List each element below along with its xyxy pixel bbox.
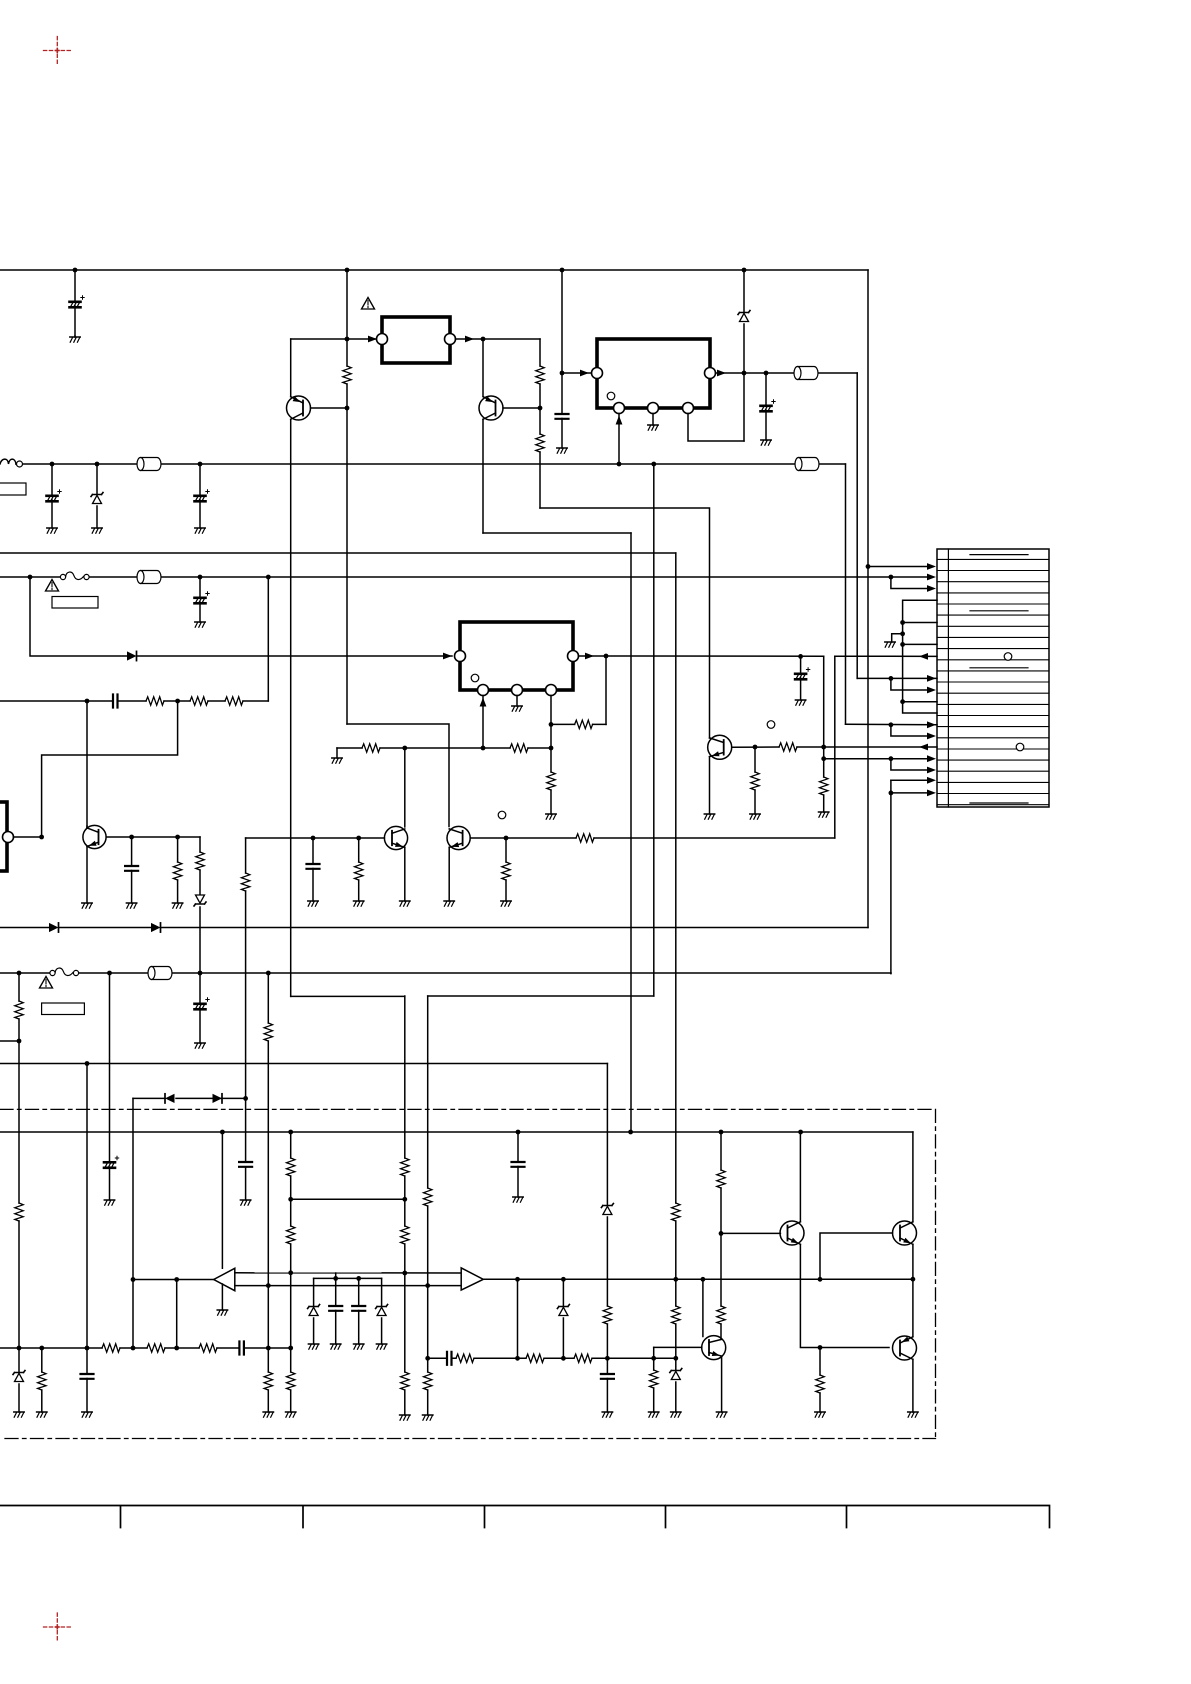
wire: y=1063.5 from x=0 to corner x=607.4 bbox=[0, 1063, 607, 1065]
ground bbox=[423, 1415, 433, 1420]
electrolytic cap at (52,496) bbox=[51, 464, 53, 528]
wire: rail corner down x=912.9 to Q9 collector bbox=[912, 1132, 914, 1222]
wire: y=996 left segment (290.7 corner to 404.8) bbox=[291, 995, 405, 997]
node: junction (630.6,1132) bbox=[628, 1130, 633, 1135]
op-amp B (pointing right) bbox=[461, 1268, 483, 1290]
pin: U-B bottom 1 bbox=[614, 403, 625, 414]
pin: U-C right bbox=[568, 651, 579, 662]
node: junction (890.9,792.9) bbox=[889, 791, 894, 796]
node: junction (133,1279.5) bbox=[131, 1277, 136, 1282]
wire: x=755 down resistor to ground bbox=[754, 747, 756, 814]
resistor R on x=347 bbox=[343, 366, 351, 384]
zener diode at (97,496) bbox=[96, 464, 98, 528]
wire: U-C pin 483 down to junction 748 with up arrow bbox=[482, 696, 484, 749]
node: junction (313,838) bbox=[311, 836, 316, 841]
wire: x=87 collector up from QA to y=701 bbox=[86, 701, 88, 828]
ferrite bead on y=577 bbox=[137, 571, 161, 584]
wire: U-B pin 653 to ground bbox=[652, 414, 654, 426]
pin: U-B bottom 3 bbox=[683, 403, 694, 414]
ground bbox=[602, 1412, 612, 1417]
wire: vertical x=269 from 577 down to y=701 corner bbox=[267, 577, 269, 701]
connector divider bbox=[947, 549, 949, 807]
wire: op-amp A ground stem bbox=[221, 1284, 223, 1310]
node: junction (87,1063.5) bbox=[85, 1061, 90, 1066]
transistor Q10 (NPN) at (904.5,1348) chord right x=912.9 base left bbox=[893, 1336, 917, 1360]
connector row lines bbox=[937, 559, 1049, 804]
crop mark bottom-left bbox=[44, 1613, 73, 1641]
resistor series on y=1348 b bbox=[147, 1344, 165, 1352]
resistor on x=245.6 bbox=[241, 873, 249, 891]
series resistor 2 on y=701 bbox=[190, 697, 208, 705]
ground bbox=[750, 814, 760, 819]
node: junction (427.7,1358.3) bbox=[425, 1356, 430, 1361]
wire: Q7 emitter to ground bbox=[721, 1356, 723, 1412]
wire: x=222 chain: zener + resistor down to 1348 bbox=[221, 1132, 223, 1268]
fuse on y=577 bbox=[60, 572, 89, 580]
node: junction (200,577) bbox=[198, 575, 203, 580]
wire: vertical x=653.8 from 464 down to 996 bbox=[653, 464, 655, 996]
connector keying circle 2 bbox=[1016, 743, 1024, 751]
ground under C75 bbox=[74, 336, 76, 337]
ground bbox=[92, 528, 102, 533]
wire: y=725 from x=606 junction area to connector bbox=[846, 723, 938, 726]
wire: vertical x=562 from 270 to 373 bbox=[561, 270, 563, 373]
ferrite bead on y=373 bbox=[794, 367, 818, 380]
resistor at (506,862) bbox=[505, 838, 507, 901]
resistor below line at x=41.8 bbox=[41, 1348, 43, 1412]
ground under cap 562 bbox=[557, 448, 567, 453]
ground bbox=[648, 425, 658, 430]
wire: y=996 right segment (427.7 to 653.8) bbox=[428, 995, 654, 997]
zener at (381.6,1306) bbox=[381, 1278, 383, 1344]
wire: Q8 emitter down to corner y=1347.5 then Q10 base bbox=[800, 1244, 889, 1347]
transistor Q9 (NPN) at (904.5,1233) chord right x=912.9 base left bbox=[893, 1221, 917, 1245]
node: junction +B x=562 bbox=[560, 268, 565, 273]
node: junction (177.6,837) bbox=[175, 835, 180, 840]
ground bbox=[795, 700, 805, 705]
ferrite bead on y=973 bbox=[148, 967, 172, 980]
node: junction (868,566.5) bbox=[866, 564, 871, 569]
wire: stub 792.9 bbox=[891, 792, 932, 794]
series resistor 1 on y=701 bbox=[146, 697, 164, 705]
node: junction (823.9,747) bbox=[821, 745, 826, 750]
ground bbox=[376, 1344, 386, 1349]
ground bbox=[37, 1412, 47, 1417]
diode pair line y=1098.4 bbox=[133, 1097, 246, 1099]
IC U-C box (460,622)-(573,690) bbox=[460, 622, 573, 690]
capacitor at (313,864) bbox=[312, 838, 314, 901]
wire: y=533 from 483 to 631 bbox=[483, 532, 631, 534]
node: junction (820,1347.5) bbox=[818, 1345, 823, 1350]
node: junction (19,973) bbox=[17, 971, 22, 976]
node: junction (744,373) bbox=[742, 371, 747, 376]
node: junction (176.7,1348) bbox=[174, 1346, 179, 1351]
node: junction (245.6,1098.4) bbox=[243, 1096, 248, 1101]
wire: Q9 base from x=820 bracket bbox=[820, 1233, 893, 1279]
node: junction (268.8,577) bbox=[266, 575, 271, 580]
pin: U-B bottom 2 bbox=[648, 403, 659, 414]
node: junction (606,656) bbox=[604, 654, 609, 659]
zener at (313.6,1306) bbox=[313, 1278, 315, 1344]
wire: fused line y=577 full width to connector bbox=[0, 576, 932, 578]
wire: staircase 577 to 588.5 stub bbox=[891, 577, 932, 589]
node: junction (52,464) bbox=[50, 462, 55, 467]
series resistor on y=1358.3 a bbox=[456, 1354, 474, 1362]
wire: U-B pin 688 down to y=441 left to x=744 bbox=[688, 414, 744, 442]
scale bar at bottom bbox=[0, 1506, 1050, 1528]
ground bbox=[14, 1412, 24, 1417]
ground bbox=[444, 901, 454, 906]
node: junction (755,747) bbox=[753, 745, 758, 750]
node: junction +B x=347 bbox=[345, 268, 350, 273]
capacitor below line at x=87 bbox=[86, 1348, 88, 1412]
node: junction (87,1348) bbox=[85, 1346, 90, 1351]
node: junction (200,464) bbox=[198, 462, 203, 467]
wire: y=508 from 540 to 709.5 then down bbox=[540, 508, 710, 738]
transistor Q8 (NPN) at (792,1233) chord right x=800.4 base left bbox=[780, 1221, 804, 1245]
diode pointing left on y=1098.4 bbox=[165, 1094, 175, 1103]
node: junction (506,838) bbox=[504, 836, 509, 841]
line y=1358.3 right segment: 427.7 to 675.8 bbox=[428, 1357, 676, 1359]
wire: op-amp inputs row y=1272.8 bbox=[235, 1272, 461, 1274]
wire: vertical x=845.4 from 464 to 656 bbox=[845, 464, 847, 724]
electrolytic cap at (200,600) bbox=[199, 577, 201, 622]
wire: vertical x=891.7 from corner 780.3 down to 973.5 bbox=[890, 780, 892, 973]
capacitor at (358.7,1306) bbox=[358, 1278, 360, 1344]
node: junction x=483 y=339 bbox=[481, 337, 486, 342]
ground bbox=[104, 1200, 114, 1205]
ground bbox=[400, 901, 410, 906]
wire: diode line y=927.5 from x=0 to corner x=868 bbox=[0, 927, 868, 929]
ground bbox=[331, 1344, 341, 1349]
ground bbox=[354, 901, 364, 906]
node: junction (721,1132) bbox=[719, 1130, 724, 1135]
pin: U-D right pin bbox=[3, 832, 14, 843]
wire: x=427.7 from 996 down to ground bbox=[427, 996, 429, 1415]
diode on y=656 bbox=[127, 651, 137, 660]
transistor Q1 (PNP) at (298.5,408) chord x=290.3 base right bbox=[290, 339, 292, 397]
wire: staircase 758.7 to 770 bbox=[891, 759, 932, 770]
wire: x=200 down from 837: resistor + zener to junction 973 bbox=[199, 837, 201, 973]
op-amp A (pointing left) bbox=[214, 1268, 235, 1290]
resistor at (358.7,862) bbox=[358, 838, 360, 901]
connector keying circle 1 bbox=[1004, 653, 1012, 661]
series resistor on y=1358.3 b bbox=[526, 1354, 544, 1362]
wire: Q8 collector up to rail bbox=[799, 1132, 801, 1222]
crop mark top-left bbox=[44, 37, 73, 65]
wire: power rail y=1132 inside box bbox=[0, 1131, 913, 1133]
node: junction (87,701) bbox=[85, 699, 90, 704]
wire: vertical x=404.8 from 748 to Q3 top bbox=[404, 748, 406, 827]
node: junction (41.6,837) bbox=[39, 835, 44, 840]
wire: y=1199.3 from 290.8 to 404.8 bbox=[291, 1198, 405, 1200]
wire: x=653.7 from base row 1347.4 down through 1358.3, resistor, ground bbox=[653, 1347, 655, 1412]
pin: U-C bottom 2 bbox=[512, 685, 523, 696]
IC U-D at left page edge (cut) bbox=[0, 802, 7, 871]
node: junction (551,724.4) bbox=[549, 722, 554, 727]
wire: x=290.8 chain down to ground below 1348 bbox=[290, 1132, 292, 1412]
node+wire: stub 701.7 bbox=[900, 699, 905, 704]
wire: staircase 724.8 to 736 bbox=[891, 725, 932, 736]
pin: U-B right bbox=[705, 368, 716, 379]
node: junction (41.8,1348) bbox=[39, 1346, 44, 1351]
test point circle at (502,815) bbox=[498, 811, 506, 819]
wire: Q2 emitter down x=483 to y=533 bbox=[482, 419, 484, 533]
wire: vertical x=857.2 corner to stub 679 bbox=[857, 677, 937, 679]
node: junction (268.8,1285.6) bbox=[266, 1283, 271, 1288]
wire: x=133 from 1098.4 down to 1348 bbox=[132, 1098, 134, 1348]
wire: staircase 679 to 690 bbox=[891, 678, 932, 690]
electrolytic cap at x=766 bbox=[765, 373, 767, 440]
wire: stub 780.3 bbox=[891, 779, 932, 781]
node: junction (551,748) bbox=[549, 746, 554, 751]
wire: x=820 resistor to ground bbox=[819, 1348, 821, 1413]
ground bbox=[195, 622, 205, 627]
node: junction (800.6,656) bbox=[798, 654, 803, 659]
node: junction (404.8,1199.3) bbox=[402, 1197, 407, 1202]
node: junction x=347 y=408 (base Q1) bbox=[345, 406, 350, 411]
node: junction (563.4,1358.3) bbox=[561, 1356, 566, 1361]
zener diode at x=744 bbox=[738, 311, 750, 322]
wire: x=834.2 from 656 down to 838 bbox=[834, 656, 836, 838]
dash-dot box bottom border y=1438.5 bbox=[5, 1438, 936, 1440]
ground bbox=[819, 812, 829, 817]
wire: Q4 base y=747 to connector bbox=[732, 746, 937, 748]
zener below at x=675.8 bbox=[675, 1358, 677, 1412]
node: junction (335.7,1278.4) bbox=[333, 1276, 338, 1281]
capacitor at x=562 below bbox=[561, 373, 563, 448]
wire: x=702.9 down to Q7 circle top bbox=[702, 1279, 704, 1336]
node: junction (268.8,1348) bbox=[266, 1346, 271, 1351]
wire: x=176.7 link down to 1348 bbox=[176, 1280, 178, 1349]
pin1 indicator circle inside U-B bbox=[607, 392, 615, 400]
node: junction (653.7,1358.3) bbox=[651, 1356, 656, 1361]
wire: x=268.8 below 1348: resistor + ground bbox=[267, 1348, 269, 1412]
ground under cap 766 bbox=[761, 440, 771, 445]
connector detail lines bbox=[970, 555, 1028, 803]
node: junction (890.9,758.7) bbox=[889, 756, 894, 761]
node: junction (290.8,1199.3) bbox=[288, 1197, 293, 1202]
capacitor C (electrolytic) at x=75 bbox=[74, 270, 76, 336]
diode pointing right on y=1098.4 bbox=[213, 1094, 223, 1103]
wire: vertical x=245.6 from 838 down to cap at 1158 bbox=[245, 838, 247, 1200]
ground bbox=[716, 1412, 726, 1417]
node: junction (890.9,577) stub bbox=[889, 575, 894, 580]
transistor Q2 (PNP) at (491,408) chord x=483 base right bbox=[479, 396, 503, 420]
wire: vertical x=675.8 from 553 down to 1358.3 bbox=[675, 553, 677, 1358]
ground bbox=[815, 1412, 825, 1417]
wire: bracket (177.6,701)-(177.6,755)-(41.6,755)-(41.6,837) bbox=[42, 701, 178, 837]
wire: Q1 emitter down x=290.7 all the way to rail y=1132 bbox=[290, 419, 292, 996]
node: junction (563.4,1279.3) bbox=[561, 1277, 566, 1282]
resistor series on y=1348 c bbox=[199, 1344, 217, 1352]
label box (41.6,1003)-(84.4,1014.5) bbox=[42, 1003, 85, 1015]
node: junction on +B at x=75 bbox=[73, 268, 78, 273]
wire: Q9 emitter down to Q10 collector bbox=[912, 1244, 914, 1336]
wire: op-amp A output y=1279.5 to x=133 bbox=[133, 1279, 214, 1281]
capacitor at (245.6,1158) bbox=[239, 1162, 252, 1167]
IC U-B box (597,339)-(710,408) bbox=[597, 339, 710, 408]
pin: U-C left bbox=[455, 651, 466, 662]
wire: IC U-A output to x=540 with arrow bbox=[456, 338, 541, 340]
wire: QA base to corner x=200 bbox=[107, 836, 200, 838]
pin1 indicator circle inside U-C bbox=[471, 674, 479, 682]
diode 1 on y=927.5 bbox=[49, 923, 59, 932]
series resistor on y=1358.3 c bbox=[574, 1354, 592, 1362]
ground bbox=[704, 814, 714, 819]
ground bbox=[908, 1412, 918, 1417]
wire: vertical x=540 from 339 to 508 with two resistors bbox=[539, 339, 541, 508]
ground bbox=[512, 706, 522, 711]
node: junction (607.4,1358.3) bbox=[605, 1356, 610, 1361]
pin: IC U-A left pin bbox=[377, 334, 388, 345]
electrolytic cap at x=800.6 under y=656 bbox=[800, 656, 802, 700]
node: junction stub (890.9,724.8) bbox=[889, 722, 894, 727]
node: junction (19,1348) bbox=[17, 1346, 22, 1351]
pin: IC U-A right pin bbox=[445, 334, 456, 345]
wire: +B rail y=270 bbox=[0, 269, 868, 271]
wire: vertical x=347 from +B down to y=724 with resistor bbox=[346, 270, 348, 724]
wire: connector stub chain x=902.6 from 600.3 to 713 bbox=[903, 600, 937, 713]
wire: U-C output y=656 to connector with junctions bbox=[579, 655, 938, 657]
ground bbox=[649, 1412, 659, 1417]
series capacitor on y=701 bbox=[113, 695, 118, 708]
node: junction (653.8,464) bbox=[651, 462, 656, 467]
wire: vertical x=631 from 533 to rail 1132 bbox=[630, 533, 632, 1132]
wire: x=563.4 zener down to 1358.3 bbox=[562, 1279, 564, 1358]
wire: Q10 emitter to ground bbox=[912, 1359, 914, 1412]
node: junction +B x=744 bbox=[742, 268, 747, 273]
ferrite bead on y=464 bbox=[137, 458, 161, 471]
connector CN outer box bbox=[937, 549, 1049, 807]
wire: corner (347,724) to (449,724) then down to Q base chord bbox=[347, 724, 449, 827]
electrolytic cap at (109.5,1158) bbox=[104, 1156, 119, 1168]
node: junction (290.8,1132) bbox=[288, 1130, 293, 1135]
wire: U-C pin 517 to ground bbox=[516, 696, 518, 707]
node: junction (518,1132) bbox=[516, 1130, 521, 1135]
transistor Q4 (NPN) at (719.7,747.3) chord x=709.5 base right bbox=[708, 735, 732, 759]
capacitor below at x=607.4 bbox=[606, 1358, 608, 1412]
ground bbox=[263, 1412, 273, 1417]
transistor QA (NPN) at (94.5,837) chord x=87 base right-left pass bbox=[83, 825, 106, 848]
node: junction (540,408) bbox=[538, 406, 543, 411]
node: junction (890.9,678.4) bbox=[889, 676, 894, 681]
node: junction (800.6,1132) bbox=[798, 1130, 803, 1135]
warning triangle below fuse y=577 bbox=[46, 580, 59, 592]
node+wire: ground bracket at 633.8 bbox=[900, 631, 905, 636]
wire: y=748 from ground stub x=337 to 551 bbox=[337, 747, 551, 749]
wire: x=721 chain down to Q7 collector bbox=[720, 1132, 722, 1339]
IC U-A box (382,317)-(450,363) bbox=[382, 317, 450, 363]
resistor at (177.6,862) bbox=[177, 837, 179, 903]
series resistor 3 on y=701 bbox=[225, 697, 243, 705]
node: junction (131.6,837) bbox=[129, 835, 134, 840]
pin: U-B left bbox=[592, 368, 603, 379]
ground bbox=[671, 1412, 681, 1417]
node: junction (517.5,1279.3) bbox=[515, 1277, 520, 1282]
ground bbox=[885, 642, 895, 647]
coil at left end of y=464 bbox=[0, 459, 16, 464]
wire: x=404.8 from 996 down to ground 1418 bbox=[404, 996, 406, 1415]
ground bbox=[195, 1043, 205, 1048]
wire: x=517.5 link down to 1358.3 bbox=[517, 1279, 519, 1358]
ground bbox=[354, 1344, 364, 1349]
node: junction (702.9,1279.3) bbox=[701, 1277, 706, 1282]
ground bbox=[172, 903, 182, 908]
node: junction (19,1041) + stub to page edge bbox=[17, 1039, 22, 1044]
wire: Q7 base from x=653.7 bbox=[654, 1346, 702, 1348]
node: junction (176.7,1279.5) bbox=[174, 1277, 179, 1282]
ground bbox=[332, 758, 342, 763]
node: junction (427.7,1285.6) bbox=[425, 1283, 430, 1288]
resistor on y=748 left bbox=[362, 744, 380, 752]
wire: x=109.5 from 973 down to cap bbox=[109, 973, 111, 1200]
wire: vertical x=269.5 from 973 down to 1348 with resistor bbox=[267, 973, 269, 1348]
node: junction (562,373) bbox=[560, 371, 565, 376]
ground bbox=[82, 1412, 92, 1417]
node: junction (358.7,838) bbox=[356, 836, 361, 841]
wire: input to IC0 from x=290 at y=339 bbox=[291, 338, 377, 340]
wire: U-B pin 619 from junction (619,464) with up arrow bbox=[618, 414, 620, 465]
ground bbox=[240, 1200, 250, 1205]
ground bbox=[400, 1415, 410, 1420]
wire: y=724.4 from 551 to 606 with resistor bbox=[551, 723, 606, 725]
wire: base row y=838 right segment from Q6 to corner x=834.2 bbox=[470, 837, 835, 839]
capacitor at (131.6,866) bbox=[131, 837, 133, 903]
node: junction (222,1132) bbox=[220, 1130, 225, 1135]
wire: vertical x=868 from +B rail down to y=927 bbox=[867, 270, 869, 928]
node: junction (766,373) bbox=[764, 371, 769, 376]
node: junction (133,1348) bbox=[131, 1346, 136, 1351]
resistor on x=540 lower bbox=[536, 434, 544, 452]
node: junction (721,1233.4) bbox=[719, 1231, 724, 1236]
wire: line y=553 from x=0 to corner x=675.8 bbox=[0, 552, 676, 554]
capacitor at (335.7,1306) bbox=[335, 1278, 337, 1344]
node: junction (823.9,758.7) bbox=[821, 756, 826, 761]
ground bbox=[126, 903, 136, 908]
wire: x=30 down from 577 to 656 then right (input line) bbox=[30, 577, 452, 656]
wire: U-C pin 551 down to ground with resistor bbox=[550, 696, 552, 815]
dash-dot box right border x=933 bbox=[935, 1109, 937, 1438]
warning triangle above IC0 bbox=[362, 298, 375, 310]
wire: supply line y=464 from coil to corner x=845.4 bbox=[16, 463, 845, 465]
wire: base Q8 from x=721 bbox=[721, 1232, 780, 1234]
resistor series on y=1348 a bbox=[102, 1344, 120, 1352]
resistor on y=748 right bbox=[510, 744, 528, 752]
zener below line at x=19 bbox=[18, 1348, 20, 1412]
ground bbox=[217, 1310, 227, 1315]
wire: op-amp inputs row y=1285.6 bbox=[235, 1285, 461, 1287]
wire: U-B output y=373 to corner x=857 bbox=[716, 372, 858, 374]
node: junction (675.8,1279.3) bbox=[673, 1277, 678, 1282]
wire: protection row y=1278.4 from 313.6 to 381.6 bbox=[314, 1277, 382, 1279]
wire: base row y=838 left segment from corner x=245.6 to Q5 bbox=[246, 837, 385, 839]
wire: into IC U-B left pin bbox=[562, 372, 592, 374]
series capacitor on y=1348 bbox=[239, 1342, 244, 1355]
label box at left edge y=489 bbox=[0, 483, 26, 495]
pin: U-C bottom 1 bbox=[478, 685, 489, 696]
transistor Q7 (NPN) at (713.7,1347.6) chord right x=721.6 base left bbox=[702, 1336, 726, 1360]
fuse on y=973 bbox=[50, 968, 79, 976]
ground bbox=[308, 901, 318, 906]
wire: x=607.4 from 1063.5 down: zener, resistor to 1358.3 bbox=[606, 1064, 608, 1359]
warning triangle below fuse y=973 bbox=[40, 977, 53, 989]
node: junction (200,973) bbox=[198, 971, 203, 976]
wire: vertical x=483 from 339 to Q2 collector bbox=[482, 339, 484, 396]
diode 2 on y=927.5 bbox=[151, 923, 161, 932]
resistor on x=268.8 at 1023 bbox=[264, 1023, 272, 1041]
resistor on x=540 upper bbox=[536, 366, 544, 384]
